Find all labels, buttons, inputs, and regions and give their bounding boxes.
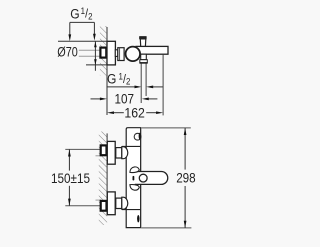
- leader lines for top G1/2: [68, 22, 95, 41]
- spout (top view): [136, 46, 168, 54]
- svg-text:G1/2: G1/2: [70, 6, 93, 22]
- Ø70 dimension: [58, 41, 107, 71]
- lower leaf shape: [130, 185, 139, 191]
- outlet pipe extension lines: [141, 63, 146, 103]
- black tick on column: [133, 176, 135, 181]
- lower supply stub lines: [65, 200, 101, 206]
- in-wall union fitting (dark) top view: [100, 48, 106, 58]
- supply pipe behind wall (gray stub): [79, 50, 101, 56]
- dark slot near bottom of column: [137, 215, 139, 222]
- dimension 107: [91, 98, 158, 101]
- hex nut top view: [118, 48, 124, 61]
- wall (hatched) bottom view: [99, 132, 107, 226]
- main body column (plan): [122, 128, 141, 228]
- upper supply stub lines: [65, 149, 101, 155]
- shower outlet collar below valve: [140, 54, 148, 63]
- svg-text:298: 298: [176, 170, 196, 185]
- neck between escutcheon and nut: [115, 50, 118, 57]
- svg-text:150±15: 150±15: [51, 171, 90, 186]
- svg-text:Ø70: Ø70: [57, 44, 78, 59]
- lower union connector D (plan): [122, 197, 128, 209]
- upper escutcheon (plan): [107, 141, 115, 164]
- svg-text:162: 162: [124, 105, 144, 120]
- valve body circle (top view): [126, 47, 141, 62]
- in-wall union fitting lower (dark): [101, 201, 107, 211]
- dimension 298: [141, 128, 191, 228]
- diverter knob on spout: [140, 37, 147, 47]
- small circle near top of column: [134, 133, 141, 141]
- upper nut (plan): [116, 148, 122, 158]
- knob circle on spout (plan): [139, 174, 147, 182]
- spout (plan) rounded rect: [135, 172, 168, 185]
- svg-text:107: 107: [115, 92, 135, 107]
- dimension 162: [107, 55, 163, 116]
- lower escutcheon (plan): [107, 192, 115, 215]
- wall (hatched) top view: [100, 26, 107, 115]
- escutcheon top view: [107, 41, 115, 65]
- lower nut (plan): [116, 198, 122, 208]
- upper leaf shape: [130, 167, 139, 173]
- svg-text:G1/2: G1/2: [107, 71, 131, 87]
- leader for lower G1/2: [107, 86, 163, 89]
- dimension 150±15: [68, 149, 71, 205]
- in-wall union fitting upper (dark): [101, 145, 107, 155]
- upper union connector D (plan): [122, 147, 128, 159]
